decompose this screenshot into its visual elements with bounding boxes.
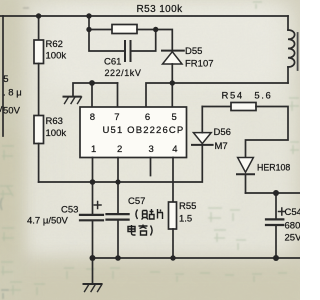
svg-text:R62: R62 — [46, 39, 63, 50]
svg-text:680: 680 — [285, 221, 301, 232]
svg-text:8: 8 — [90, 112, 95, 123]
svg-text:C61: C61 — [104, 57, 121, 68]
svg-text:U51 OB2226CP: U51 OB2226CP — [103, 125, 185, 136]
svg-text:D55: D55 — [185, 46, 202, 57]
svg-text:5: 5 — [3, 74, 8, 85]
svg-text:R55: R55 — [179, 201, 196, 212]
svg-text:4.7 μ/50V: 4.7 μ/50V — [27, 216, 69, 227]
svg-text:HER108: HER108 — [257, 163, 290, 173]
svg-text:FR107: FR107 — [185, 59, 214, 70]
svg-text:25V: 25V — [285, 233, 301, 244]
svg-text:R53 100k: R53 100k — [137, 4, 184, 15]
svg-text:4: 4 — [172, 144, 177, 155]
svg-text:6: 6 — [145, 112, 150, 123]
svg-text:100k: 100k — [46, 51, 67, 62]
svg-text:1: 1 — [91, 144, 96, 155]
svg-text:C53: C53 — [61, 205, 78, 216]
svg-text:M7: M7 — [215, 141, 228, 152]
svg-text:R54 5.6: R54 5.6 — [222, 91, 273, 102]
svg-text:. 8 μ: . 8 μ — [3, 88, 22, 99]
svg-text:R63: R63 — [46, 116, 63, 127]
svg-text:1.5: 1.5 — [179, 214, 192, 225]
svg-text:222/1kV: 222/1kV — [105, 68, 142, 78]
svg-text:2: 2 — [117, 144, 122, 155]
svg-text:100k: 100k — [46, 128, 67, 139]
svg-text:C57: C57 — [128, 196, 145, 207]
svg-text:3: 3 — [149, 144, 154, 155]
svg-text:5: 5 — [172, 112, 177, 123]
svg-text:D56: D56 — [214, 127, 231, 138]
svg-text:C54: C54 — [285, 207, 301, 218]
svg-text:50V: 50V — [3, 106, 21, 117]
svg-text:7: 7 — [114, 112, 119, 123]
